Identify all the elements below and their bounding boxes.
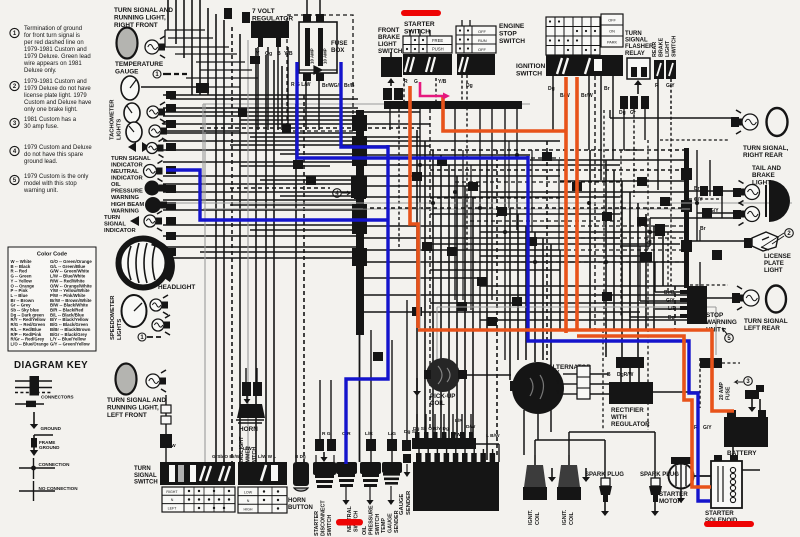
headlight dimmer switch table bbox=[238, 487, 287, 513]
svg-text:R: R bbox=[404, 79, 408, 85]
note 1 bbox=[10, 28, 19, 37]
neutral switch bbox=[336, 462, 357, 505]
turn signal left rear rim bbox=[766, 286, 786, 313]
svg-text:SPEEDOMETER: SPEEDOMETER bbox=[110, 295, 116, 340]
svg-text:Y/B: Y/B bbox=[438, 79, 447, 85]
svg-text:Y: Y bbox=[256, 51, 260, 57]
starter disconnect switch bbox=[313, 462, 336, 488]
pick-up coil bbox=[424, 358, 467, 392]
license plate light bbox=[744, 232, 778, 251]
svg-text:OFF: OFF bbox=[478, 47, 487, 52]
engine stop switch connector block bbox=[457, 54, 495, 75]
svg-text:L/W W L: L/W W L bbox=[258, 454, 276, 459]
speedometer bulb lower bbox=[152, 315, 170, 335]
svg-text:RUN: RUN bbox=[478, 38, 487, 43]
turn signal right front bulb bbox=[145, 36, 165, 58]
oil pressure warning lamp bbox=[145, 181, 167, 196]
svg-text:PRESSURE: PRESSURE bbox=[369, 505, 375, 535]
svg-text:R G: R G bbox=[322, 431, 331, 437]
turn signal right rear bulb bbox=[731, 110, 758, 134]
note 3 bbox=[10, 118, 19, 127]
svg-text:LEFT: LEFT bbox=[168, 507, 178, 511]
wire battery and solenoid leads bbox=[694, 358, 760, 476]
svg-text:B: B bbox=[277, 51, 281, 57]
svg-text:Color Code: Color Code bbox=[37, 252, 67, 258]
rear brake light switch connectors bbox=[654, 60, 676, 79]
svg-text:LIGHTS: LIGHTS bbox=[117, 319, 123, 340]
wire bundle center mesh extra bbox=[430, 141, 620, 310]
svg-text:Dg: Dg bbox=[619, 110, 626, 116]
svg-text:Br/B: Br/B bbox=[664, 290, 675, 296]
starter switch highlight mark bbox=[401, 10, 441, 16]
harness junction connector mid bbox=[354, 185, 366, 199]
svg-text:NEUTRALINDICATOR: NEUTRALINDICATOR bbox=[111, 169, 143, 182]
turn signal switch connector block bbox=[160, 462, 235, 485]
svg-text:Br: Br bbox=[700, 226, 706, 232]
turn signal left rear bulb bbox=[732, 286, 759, 310]
neutral indicator lamp bbox=[144, 161, 163, 182]
wire regulator leads bbox=[258, 47, 288, 130]
key no-connection symbol bbox=[19, 481, 78, 501]
ignition coil 2 ground arrow bbox=[582, 468, 590, 482]
gauge feeder stubs bbox=[141, 87, 240, 131]
temp sender connector bbox=[387, 439, 397, 451]
wire blue main down run bbox=[346, 145, 388, 464]
svg-text:Dg: Dg bbox=[645, 239, 652, 245]
engine stop switch contact table bbox=[456, 26, 496, 53]
right rear connector blocks bbox=[640, 186, 723, 262]
turn signal right front lamp bbox=[117, 28, 138, 59]
wire engine block leads bbox=[417, 414, 499, 462]
wire pink starter lead bbox=[420, 82, 450, 100]
svg-text:N: N bbox=[171, 498, 174, 502]
rectifier connector bbox=[616, 357, 644, 382]
note ref 1 top bbox=[153, 70, 161, 78]
note ref 3 fuse bbox=[744, 377, 753, 386]
spark plug 1 bbox=[599, 478, 612, 516]
headlight bbox=[119, 239, 172, 288]
svg-text:G/Y: G/Y bbox=[666, 298, 675, 304]
wire bundle instrument harness horizontals bbox=[163, 95, 530, 258]
svg-text:GrSb O Br/W: GrSb O Br/W bbox=[212, 454, 241, 459]
key connection symbol bbox=[19, 458, 70, 479]
svg-text:NO CONNECTION: NO CONNECTION bbox=[39, 486, 79, 491]
wire fuse box leads bbox=[306, 0, 320, 130]
pick-up coil ground bbox=[413, 378, 421, 396]
svg-text:TURN SIGNAL,RIGHT REAR: TURN SIGNAL,RIGHT REAR bbox=[743, 145, 789, 159]
turn signal left front bulb bbox=[146, 370, 166, 392]
lamp connector blobs bbox=[166, 91, 176, 256]
ignition switch position table bbox=[601, 14, 623, 47]
svg-text:G: G bbox=[414, 79, 418, 85]
wire orange main horizontal run bbox=[418, 330, 734, 411]
engine stop switch stems bbox=[462, 20, 470, 26]
svg-text:HIGH: HIGH bbox=[244, 508, 253, 512]
svg-text:G/Y: G/Y bbox=[703, 425, 712, 431]
svg-text:L B/W: L B/W bbox=[486, 433, 500, 439]
svg-text:L/R: L/R bbox=[668, 306, 676, 312]
starter switch stems bbox=[410, 30, 430, 36]
wire ignition switch drops bbox=[553, 76, 613, 330]
svg-text:COIL: COIL bbox=[535, 511, 541, 525]
flasher relay connectors bbox=[620, 96, 649, 109]
svg-text:G/Y -- Green/Yellow: G/Y -- Green/Yellow bbox=[50, 341, 90, 346]
wire bundle extra dashed drops bbox=[430, 110, 684, 430]
wire orange starter switch run bbox=[410, 86, 418, 328]
color code legend bbox=[8, 247, 96, 351]
note ref 2 bbox=[785, 229, 794, 238]
svg-text:Br: Br bbox=[604, 86, 610, 92]
wire alternator leads bbox=[460, 374, 700, 440]
fuse box bbox=[299, 14, 337, 81]
wire bundle right rear distribution bbox=[610, 110, 745, 246]
wire bus bar top bbox=[384, 101, 522, 109]
wire orange ignition feed 2 bbox=[575, 77, 579, 330]
wire bundle left vertical drops bbox=[168, 0, 304, 462]
svg-text:G/Y: G/Y bbox=[694, 197, 703, 203]
starter solenoid bbox=[711, 455, 742, 508]
svg-text:L/R: L/R bbox=[365, 431, 373, 437]
svg-text:Dg: Dg bbox=[548, 86, 555, 92]
svg-text:L/G: L/G bbox=[388, 431, 396, 437]
svg-text:SENDER: SENDER bbox=[394, 510, 400, 533]
wire gray accents bbox=[203, 104, 716, 462]
svg-text:DISCONNECT: DISCONNECT bbox=[321, 500, 327, 536]
svg-text:ON: ON bbox=[609, 30, 615, 34]
svg-text:10 AMP: 10 AMP bbox=[323, 48, 328, 64]
svg-text:OIL: OIL bbox=[362, 525, 368, 535]
battery ground post bbox=[745, 385, 764, 412]
temp gauge sender bbox=[382, 462, 402, 505]
svg-text:G/Y: G/Y bbox=[666, 83, 675, 89]
svg-text:GAUGE: GAUGE bbox=[388, 513, 394, 533]
svg-text:CONNECTION: CONNECTION bbox=[39, 462, 71, 467]
wire blue fuse right run bbox=[341, 62, 388, 147]
horn bbox=[236, 382, 265, 423]
starter disconnect connectors bbox=[315, 439, 336, 462]
svg-text:Gr: Gr bbox=[630, 110, 636, 116]
svg-text:10 AMP: 10 AMP bbox=[310, 48, 315, 64]
stop warning unit bbox=[680, 286, 707, 324]
wire bundle top feeders bbox=[165, 8, 316, 185]
starter solenoid highlight mark bbox=[704, 521, 754, 527]
svg-text:HEADLIGHT: HEADLIGHT bbox=[158, 284, 195, 291]
svg-text:DIAGRAM KEY: DIAGRAM KEY bbox=[14, 360, 88, 371]
svg-text:BRAKE: BRAKE bbox=[659, 37, 665, 57]
svg-text:OFF: OFF bbox=[608, 19, 616, 23]
key frame ground symbol bbox=[30, 435, 60, 456]
svg-text:FUSE: FUSE bbox=[726, 386, 732, 400]
alternator bbox=[510, 362, 564, 414]
rear harness trunk bbox=[681, 148, 692, 288]
wire horn leads bbox=[246, 368, 257, 382]
mesh connector blocks bbox=[373, 152, 670, 361]
main harness trunk bbox=[351, 110, 367, 462]
svg-text:NEUTRAL: NEUTRAL bbox=[347, 506, 353, 532]
svg-text:IGNIT.: IGNIT. bbox=[562, 509, 568, 525]
rectifier with regulator bbox=[577, 366, 653, 404]
engine harness bar bbox=[412, 432, 476, 449]
tail light bulb upper bbox=[733, 181, 760, 204]
svg-text:CONNECTORS: CONNECTORS bbox=[41, 395, 74, 400]
svg-text:STARTER: STARTER bbox=[314, 511, 320, 536]
wire orange switch link run bbox=[443, 96, 566, 131]
svg-text:LIGHT: LIGHT bbox=[665, 40, 671, 57]
turn signal flasher relay bbox=[627, 58, 650, 94]
horn button bbox=[293, 462, 309, 491]
tachometer gauge upper bbox=[124, 103, 140, 123]
turn signal indicator arrows bbox=[128, 139, 164, 158]
turn signal indicator lower lamp bbox=[130, 211, 162, 231]
spark plug 2 bbox=[649, 478, 662, 516]
ignition coil 1 bbox=[523, 455, 547, 500]
svg-text:Dg Sb: Dg Sb bbox=[404, 429, 418, 435]
svg-text:G/Y: G/Y bbox=[710, 208, 719, 214]
fuse box dashed enclosure bbox=[287, 15, 353, 131]
ignition switch contact table bbox=[546, 17, 600, 55]
key connectors symbol bbox=[15, 376, 74, 407]
tachometer gauge lower bbox=[126, 122, 142, 142]
tachometer bulb upper bbox=[147, 102, 165, 122]
note 4 bbox=[10, 146, 19, 155]
svg-text:COIL: COIL bbox=[569, 511, 575, 525]
svg-text:TACHOMETER: TACHOMETER bbox=[110, 99, 116, 140]
neutral switch highlight mark bbox=[336, 519, 363, 526]
svg-text:Dg: Dg bbox=[466, 83, 473, 89]
starter motor bbox=[669, 457, 694, 503]
turn signal right rear rim bbox=[767, 108, 788, 136]
high beam warning lamp bbox=[145, 197, 167, 213]
svg-text:D/W: D/W bbox=[466, 424, 476, 430]
svg-text:B: B bbox=[607, 372, 611, 378]
tail light bulb lower bbox=[733, 203, 760, 226]
svg-text:FREE: FREE bbox=[432, 38, 443, 43]
front brake light switch bbox=[381, 52, 403, 100]
wire flasher relay drops bbox=[624, 109, 645, 197]
svg-text:IGNITIONSWITCH: IGNITIONSWITCH bbox=[516, 63, 546, 77]
svg-text:L/O -- Blue/Orange: L/O -- Blue/Orange bbox=[11, 341, 50, 346]
speedometer gauge bbox=[122, 295, 147, 327]
svg-text:SENDER: SENDER bbox=[406, 490, 412, 515]
svg-text:LIGHTS: LIGHTS bbox=[117, 119, 123, 140]
svg-text:Br/W: Br/W bbox=[581, 93, 593, 99]
engine block bbox=[413, 453, 499, 511]
svg-text:SWITCH: SWITCH bbox=[327, 515, 333, 536]
svg-text:Br/WG/R Br/B: Br/WG/R Br/B bbox=[322, 83, 355, 89]
ignition switch connector block bbox=[546, 55, 623, 76]
starter switch connector block bbox=[403, 54, 452, 75]
svg-text:DgR/W: DgR/W bbox=[617, 372, 634, 378]
wire bundle center mesh horizontals bbox=[160, 141, 792, 320]
wire blue right run bbox=[528, 156, 710, 501]
wire turn signal left rear leads bbox=[690, 262, 732, 298]
wire stop warning unit leads bbox=[630, 246, 680, 317]
note ref 5 bbox=[725, 334, 734, 343]
svg-text:OFF: OFF bbox=[478, 29, 487, 34]
oil pressure switch bbox=[360, 462, 381, 505]
svg-text:N: N bbox=[247, 499, 250, 503]
svg-text:Dg: Dg bbox=[668, 315, 675, 321]
svg-text:PARK: PARK bbox=[607, 41, 618, 45]
svg-text:PUSH: PUSH bbox=[432, 47, 444, 52]
svg-text:HORN: HORN bbox=[239, 426, 258, 433]
battery bbox=[724, 410, 768, 447]
svg-text:Br: Br bbox=[694, 186, 700, 192]
svg-text:Dg Sb O R/Y Dg: Dg Sb O R/Y Dg bbox=[413, 426, 449, 432]
wire orange ignition feed 1 bbox=[564, 77, 568, 333]
svg-text:RIGHT: RIGHT bbox=[166, 490, 178, 494]
key ground symbol bbox=[30, 412, 62, 431]
turn signal switch table bbox=[162, 487, 235, 512]
svg-text:SPARK PLUG: SPARK PLUG bbox=[585, 472, 624, 478]
junction dots bbox=[357, 139, 699, 264]
svg-text:TEMP: TEMP bbox=[381, 518, 387, 533]
note 2 bbox=[10, 81, 19, 90]
wire ignition coil leads bbox=[524, 432, 655, 478]
speedometer bulb upper bbox=[150, 295, 168, 315]
7 volt regulator bbox=[251, 21, 289, 47]
oil pressure connector bbox=[366, 439, 376, 451]
svg-text:SWITCH: SWITCH bbox=[672, 36, 678, 57]
note ref 1 lower bbox=[138, 333, 146, 341]
svg-text:LOW: LOW bbox=[244, 491, 253, 495]
wire bundle center vertical drops bbox=[417, 130, 675, 460]
turn signal left front lamp bbox=[116, 364, 137, 395]
headlight dimmer switch block bbox=[238, 462, 287, 485]
svg-text:L/W: L/W bbox=[452, 432, 461, 438]
svg-text:B Dg: B Dg bbox=[295, 454, 306, 459]
ignition coil 2 bbox=[557, 455, 581, 500]
tachometer bulb lower bbox=[149, 121, 167, 141]
starter switch contact table bbox=[403, 36, 452, 53]
wire blue fuse left run bbox=[297, 62, 528, 158]
svg-text:R G L/W: R G L/W bbox=[291, 82, 311, 88]
svg-text:SPARK PLUG: SPARK PLUG bbox=[640, 472, 679, 478]
tail and brake light housing bbox=[769, 180, 790, 222]
svg-text:20 AMP: 20 AMP bbox=[719, 381, 725, 400]
note ref 4 bbox=[333, 189, 342, 198]
dg sb connectors bbox=[402, 440, 411, 477]
wire rear brake switch drops bbox=[658, 79, 671, 286]
svg-text:Og: Og bbox=[265, 51, 272, 57]
svg-text:O/W: O/W bbox=[166, 443, 176, 449]
note 5 bbox=[10, 175, 19, 184]
ignition coil 1 ground arrow bbox=[548, 468, 556, 482]
svg-text:IGNIT.: IGNIT. bbox=[528, 509, 534, 525]
svg-text:GROUND: GROUND bbox=[41, 426, 62, 431]
svg-text:R: R bbox=[655, 83, 659, 89]
temperature gauge bbox=[121, 76, 139, 100]
svg-text:Y/B: Y/B bbox=[284, 51, 293, 57]
wire starter switch drops bbox=[390, 75, 517, 430]
svg-text:L/R: L/R bbox=[455, 418, 463, 424]
wire orange solenoid feed run bbox=[577, 336, 711, 487]
wire bottom switch feeders bbox=[160, 300, 407, 462]
svg-text:REAR: REAR bbox=[652, 42, 658, 57]
wire blue neutral indicator run bbox=[166, 170, 388, 220]
